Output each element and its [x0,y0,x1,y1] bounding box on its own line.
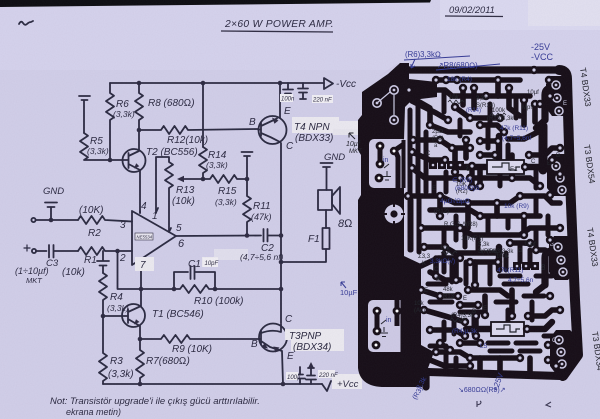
transistor pad blob T3 ch2 [550,330,578,374]
-Vcc arrow [324,78,333,89]
small pen marks bottom [477,401,551,407]
cap boxes [280,94,293,102]
bottom rail trace [428,372,560,376]
resistor R5 [80,133,110,160]
input jack 2 plus sign [24,245,30,251]
output wire with C2 [176,229,281,242]
wire: -Vcc top rail [110,82,324,84]
resistor R8 [135,83,143,130]
ch2 traces [424,247,500,253]
wire to T1 base [103,315,128,317]
blue pen annotations on PCB [340,42,553,401]
resistor R14 [199,147,207,179]
transistor T2 (BC556) [123,149,146,172]
feedback wire from pin2 [118,251,175,289]
pour window: input ch1 [369,139,407,188]
transistor T1 (BC546) [122,304,145,327]
top rail trace [406,66,560,73]
mounting hole crosshair [383,203,405,225]
T4 right pads traces [540,80,558,104]
ch1 mid horizontals [412,152,445,160]
resistor R6 [106,83,114,160]
schematic handwritten labels [15,5,503,417]
paper grain [0,0,1,1]
ground above R11 [242,152,253,179]
cap from R1 node to R4 [97,251,109,273]
resistor R11 [243,179,251,235]
bottom electrolytic caps [295,365,316,384]
op-amp U1 NE5534 [132,211,176,265]
bottom cap labels [286,372,298,380]
transistor pad blob T3 ch1 [547,154,573,196]
node: R14/R15 wiper junction [201,177,206,182]
capacitor C3 [36,245,78,258]
resistor R12 [139,126,258,134]
scanner top bar [0,0,431,7]
node: T2 base junction [108,158,113,163]
+Vcc break mark [322,381,331,391]
pour window: input ch2 [368,300,405,352]
ground above R5 [79,96,90,133]
right edge trace [559,70,578,376]
input jack 2 [32,249,36,253]
resistor R13 (trimmer) [156,157,173,232]
transistor pad blob T4 ch1 [546,76,571,116]
PCB ground pour left [358,63,437,387]
fuse F1 ch1 on pcb [478,160,530,174]
resistor R9 [140,335,259,343]
resistor R10 [174,285,215,293]
ch1 loop trace top-right [545,88,560,120]
input ground cap [45,203,57,221]
extra density traces ch1 [410,104,426,250]
input jack 1 [31,218,35,222]
speaker 8ohm [318,190,332,210]
wire: rail to R14 [202,83,204,147]
pour clearance channels [406,108,408,254]
white-out patches left of pour [330,121,358,129]
junction dots on rail [137,81,283,86]
resistor R7 [136,339,144,384]
wire: bottom +Vcc rail [103,383,322,385]
right margin rotated labels [578,67,600,371]
wire input1 [36,219,78,221]
handwritten black labels on PCB [414,90,560,322]
pour pads with clearance [373,99,381,107]
10uF MKT annotation [346,133,363,155]
pen squiggle top-left [19,21,33,25]
resistor R3 [99,316,107,384]
resistor R4 [99,273,107,316]
extra density traces ch2 [444,253,490,284]
transistor T3 (BDX34) [259,324,287,352]
white-out patches [135,117,362,389]
square pad cluster 8 ch1 [429,161,471,173]
node: pin2 junction [115,249,120,254]
middle band traces [408,196,560,203]
resistor R1 [78,247,132,255]
fuse F1 [323,228,330,249]
speaker ground [321,163,333,190]
decoupling caps at -Vcc rail [283,83,308,99]
fuse F1 ch2 on pcb [482,322,530,336]
ch1 row traces [436,77,520,83]
transistor pad blob T4 ch2 [549,236,575,280]
resistor R2 [78,216,132,224]
capacitor C1 [174,266,215,289]
resistor R15 [203,175,247,183]
node: R4/R3/T1 base junction [101,314,106,319]
transistor T4 (BDX33) [259,116,287,144]
R13 wiper arrow [183,178,203,180]
wire speaker to fuse [325,210,327,228]
node: R15/R11 junction [245,177,250,182]
feedback wire to output node [215,288,281,290]
pads (through-hole) [404,66,564,370]
wire: T1 emitter to R9 [138,337,143,342]
main traces group [406,70,578,387]
thick vertical band right of F1 ch1 [539,126,548,170]
square pad cluster 8 ch2 [513,262,546,272]
node: R8/R12/T2 collector junction [137,128,142,133]
